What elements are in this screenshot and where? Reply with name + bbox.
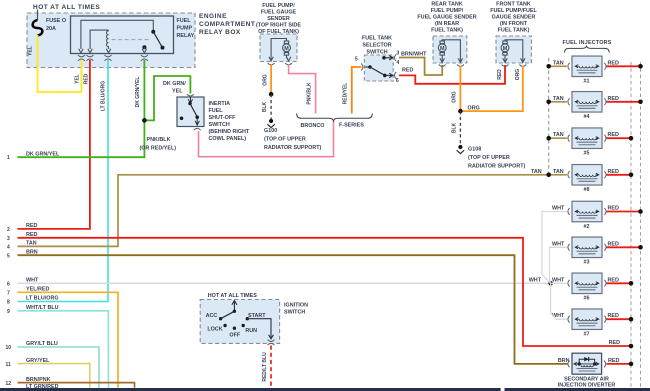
svg-text:RED: RED: [608, 241, 619, 247]
svg-text:FUEL TANK): FUEL TANK): [431, 27, 463, 33]
wire RED stub injector 1: [607, 65, 640, 67]
relay switch throw contact C (pin 4): [142, 45, 146, 49]
sender M3 internal top bar: [505, 40, 523, 43]
node FUEL PUMP/FUEL GAUGE SENDER label: [256, 3, 301, 35]
svg-text:RED: RED: [608, 206, 619, 212]
svg-text:LT BLU/ORG: LT BLU/ORG: [26, 296, 59, 302]
svg-text:WHT: WHT: [552, 241, 565, 247]
svg-text:BLK: BLK: [452, 122, 458, 133]
junction dot ORG/BLK: [269, 92, 274, 97]
wire LT GRN/RED bottom bar right: [505, 388, 650, 391]
selector switch arm: [370, 67, 385, 75]
svg-text:RED: RED: [608, 313, 619, 319]
diverter node dots: [578, 362, 597, 365]
sender M2 internal top bar: [442, 40, 460, 43]
svg-text:FUEL TANK: FUEL TANK: [362, 36, 392, 42]
svg-text:RADIATOR SUPPORT): RADIATOR SUPPORT): [468, 164, 526, 170]
wire RED from relay pin2 down to line 2: [18, 60, 90, 229]
connector at diverter right: [604, 361, 606, 368]
svg-text:YEL: YEL: [172, 89, 183, 95]
svg-text:FUEL GAUGE SENDER: FUEL GAUGE SENDER: [417, 14, 476, 20]
svg-text:GAUGE SENDER: GAUGE SENDER: [492, 14, 536, 20]
svg-text:RED: RED: [402, 68, 413, 74]
fuel injector #2: [568, 201, 606, 222]
sender M1 internal top bar: [271, 39, 286, 43]
fuel injector #7: [568, 309, 606, 330]
svg-text:FUEL TANK): FUEL TANK): [498, 27, 530, 33]
svg-text:PNK/BLK: PNK/BLK: [307, 82, 313, 105]
svg-text:#4: #4: [584, 114, 590, 120]
brace fuel injectors: [565, 45, 610, 52]
sender M3 left leg arrow: [503, 55, 507, 62]
svg-text:SWITCH: SWITCH: [284, 309, 305, 315]
connector below sender M3 right: [519, 65, 526, 67]
wire PNK/BLK from inertia switch to brace: [199, 122, 334, 157]
node PNK/BLK (OR RED/YEL) label: [140, 137, 177, 152]
svg-text:(IN REAR: (IN REAR: [435, 21, 459, 27]
svg-text:12: 12: [6, 381, 12, 387]
motor M of sender M1: [283, 41, 291, 58]
connector at inertia switch bottom: [194, 128, 201, 130]
ignition rotor pivot dot: [233, 310, 236, 313]
svg-text:TAN: TAN: [553, 132, 564, 138]
svg-text:(IN FRONT: (IN FRONT: [500, 21, 528, 27]
svg-text:4: 4: [397, 60, 400, 66]
svg-text:TAN: TAN: [531, 169, 542, 175]
junction dot tan 8: [546, 173, 551, 178]
wire RED line 3 long run: [18, 238, 630, 346]
contact LOCK: [223, 324, 226, 327]
sender M1 left leg with arrow: [269, 42, 273, 61]
svg-text:LOCK: LOCK: [207, 326, 222, 332]
contact START: [246, 317, 249, 320]
svg-text:RED: RED: [26, 232, 37, 238]
svg-text:3: 3: [7, 236, 10, 242]
svg-text:WHT: WHT: [552, 206, 565, 212]
svg-text:TAN: TAN: [553, 169, 564, 175]
secondary air injection diverter D1: [572, 353, 602, 374]
wire WHT bus to injector 2: [542, 212, 567, 284]
diverter coil bumps: [581, 365, 593, 367]
coil of relay U1: [107, 30, 109, 49]
junction dot red 2: [638, 209, 643, 214]
wire DK GRN/YEL branch to inertia switch: [144, 76, 190, 120]
wire ORG front sender down and left to junction: [460, 66, 522, 111]
wire PNK/BLK from sender M1 right leg to brace: [289, 65, 316, 114]
node G108 label: [468, 147, 526, 170]
ground G108: [457, 145, 465, 154]
svg-text:WHT: WHT: [26, 278, 39, 284]
wire RED stub injector 4: [607, 101, 640, 103]
motor M of sender M3: [501, 41, 509, 55]
junction dot line3 on inner bus: [629, 344, 634, 349]
wire TAN stub injector 5: [549, 137, 567, 139]
svg-text:COWL PANEL): COWL PANEL): [209, 136, 247, 142]
fuel injector #8: [568, 165, 606, 186]
wire RED stub injector 2: [607, 211, 640, 213]
junction dot red 3: [638, 245, 643, 250]
svg-text:11: 11: [6, 362, 12, 368]
wire LT BLU/ORG from relay pin3 down to line 8: [18, 60, 109, 302]
svg-text:RUN: RUN: [245, 328, 257, 334]
wire RED/YEL from selector pin 5 to brace: [352, 67, 362, 114]
svg-text:YEL: YEL: [28, 46, 34, 56]
node REAR TANK FUEL PUMP label: [417, 1, 476, 33]
svg-text:FUEL PUMP/: FUEL PUMP/: [431, 8, 464, 14]
svg-text:M: M: [440, 46, 445, 52]
node IGNITION SWITCH label: [284, 302, 308, 315]
svg-text:RED: RED: [609, 340, 620, 346]
sender M2 right leg arrow: [458, 43, 462, 63]
svg-text:FUSE O: FUSE O: [46, 18, 66, 24]
junction dot diverter red: [629, 362, 634, 367]
junction dot DK GRN/YEL: [142, 118, 147, 123]
wire WHT bus to injector 3: [550, 247, 567, 283]
relay switch arm: [153, 32, 162, 47]
svg-text:G108: G108: [468, 147, 481, 153]
node SECONDARY AIR INJECTION DIVERTER label: [558, 377, 616, 389]
diverter diode loop: [579, 359, 595, 364]
svg-text:SENDER: SENDER: [267, 16, 290, 22]
wire feed above fuse F1: [37, 10, 39, 21]
front tank fuel pump/fuel gauge sender M3: [496, 36, 531, 63]
connector below sender M1 left: [268, 63, 275, 65]
svg-text:3: 3: [397, 51, 400, 57]
sender M3 right leg arrow: [521, 43, 525, 63]
svg-text:ACC: ACC: [206, 313, 218, 319]
wire RED stub injector 5: [607, 137, 630, 139]
svg-text:2: 2: [7, 227, 10, 233]
svg-text:#2: #2: [584, 224, 590, 230]
wire RED stub injector 6: [607, 282, 630, 284]
wire TAN line 4 long run: [18, 175, 548, 247]
svg-text:REAR TANK: REAR TANK: [431, 1, 462, 7]
svg-text:INERTIA: INERTIA: [209, 101, 231, 107]
bus RED inner dashed vertical: [630, 62, 632, 387]
svg-text:ORG: ORG: [468, 106, 480, 112]
svg-text:FUEL PUMP/: FUEL PUMP/: [262, 3, 295, 9]
svg-text:FRONT TANK: FRONT TANK: [496, 1, 531, 7]
rear tank fuel pump/fuel gauge sender M2: [433, 36, 467, 63]
relay switch throw contact B: [161, 46, 165, 50]
svg-text:OFF: OFF: [229, 333, 240, 339]
fuel pump/fuel gauge sender M1 (bronco): [260, 34, 297, 62]
svg-text:YEL: YEL: [75, 74, 81, 84]
svg-text:5: 5: [355, 57, 358, 63]
wire WHT bus to injector 7: [551, 283, 567, 319]
svg-text:10: 10: [6, 345, 12, 351]
svg-text:PNK/BLK: PNK/BLK: [147, 137, 171, 143]
svg-text:#8: #8: [584, 187, 590, 193]
inertia switch spare contact: [180, 117, 184, 121]
fuel injector #6: [568, 273, 606, 294]
junction dot red 7: [629, 317, 634, 322]
inertia fuel shut-off switch S1: [177, 97, 204, 127]
ignition switch feed arrow: [232, 301, 237, 312]
svg-text:ENGINE: ENGINE: [199, 13, 227, 20]
sender M2 left leg arrow: [440, 55, 444, 62]
diode of diverter: [584, 357, 588, 362]
inertia switch arm: [190, 104, 197, 117]
fuel injector #1: [568, 56, 606, 77]
svg-text:RED: RED: [497, 69, 503, 80]
svg-text:RED: RED: [608, 96, 619, 102]
inertia switch input arrow: [188, 97, 192, 103]
ignition switch S3 (dashed box): [200, 300, 279, 344]
svg-text:4: 4: [7, 245, 10, 251]
wire RED stub injector 7: [607, 318, 630, 320]
svg-text:SHUT-OFF: SHUT-OFF: [209, 115, 237, 121]
junction dot tan 4: [546, 100, 551, 105]
wire WHT/LT BLU line 9: [18, 311, 109, 388]
connector at selector pin 4: [395, 54, 397, 61]
fuse label: [46, 18, 66, 32]
selector switch throw to pin 3/4: [382, 56, 393, 60]
wire ORG sender M1 to ground junction: [270, 65, 272, 95]
brace BRONCO/F-SERIES: [297, 114, 373, 122]
svg-text:#5: #5: [584, 151, 590, 157]
svg-text:LT BLU/ORG: LT BLU/ORG: [101, 81, 107, 111]
selector switch throw to pin 6: [383, 73, 393, 77]
svg-text:IGNITION: IGNITION: [284, 302, 308, 308]
wire relay internal pin1 to switch common: [81, 20, 153, 49]
svg-text:SWITCH: SWITCH: [209, 122, 230, 128]
fuel injector #4: [568, 92, 606, 113]
svg-text:DK GRN/YEL: DK GRN/YEL: [26, 151, 60, 157]
node G100 label: [264, 128, 322, 151]
wire WHT bus to injector 6: [551, 282, 567, 284]
junction dot ORG: [458, 109, 463, 114]
wire RED/LT BLU dashed: [270, 346, 272, 388]
junction dot tan 1: [546, 64, 551, 69]
connector below sender M1 right: [285, 63, 292, 65]
svg-text:(TOP OF UPPER: (TOP OF UPPER: [264, 137, 306, 143]
svg-text:RED: RED: [608, 60, 619, 66]
connector below sender M2 right: [457, 65, 464, 67]
wire RED stub injector 3: [607, 246, 640, 248]
wire RED selector pin6 to front sender: [399, 65, 505, 84]
svg-text:8: 8: [7, 300, 10, 306]
relay actuator dashed link: [112, 39, 150, 41]
engine compartment relay box (dashed enclosure): [27, 13, 195, 68]
connector symbols below relay pins: [78, 55, 148, 61]
diverter internal mid line with arrows: [574, 362, 599, 365]
svg-text:RED: RED: [84, 73, 90, 84]
wire YEL from fuse to relay pin 1: [38, 35, 82, 92]
svg-text:TAN: TAN: [26, 241, 37, 247]
svg-text:RELAY: RELAY: [177, 33, 195, 39]
wire WHT line 6 to injector bus: [18, 282, 551, 284]
wire relay internal pin2 to coil top: [90, 30, 108, 49]
svg-text:WHT: WHT: [552, 277, 565, 283]
svg-text:(OR RED/YEL): (OR RED/YEL): [140, 146, 177, 152]
svg-text:(TOP OF UPPER: (TOP OF UPPER: [468, 155, 510, 161]
svg-text:BRONCO: BRONCO: [301, 123, 325, 129]
bus TAN dashed vertical: [548, 58, 550, 175]
svg-text:RELAY BOX: RELAY BOX: [199, 29, 241, 36]
svg-text:7: 7: [7, 291, 10, 297]
junction dot red 4: [638, 100, 643, 105]
svg-text:#7: #7: [584, 332, 590, 338]
node INERTIA FUEL SHUT-OFF SWITCH label: [209, 101, 250, 142]
svg-text:RADIATOR SUPPORT): RADIATOR SUPPORT): [264, 145, 322, 151]
svg-text:1: 1: [7, 155, 10, 161]
fuel pump relay U1: [71, 16, 174, 54]
connector at selector pin 6: [395, 72, 397, 79]
sender M1 right leg arrow: [286, 57, 290, 61]
junction dot tan 5: [546, 136, 551, 141]
svg-text:HOT AT ALL TIMES: HOT AT ALL TIMES: [208, 293, 258, 299]
svg-text:PUMP: PUMP: [177, 26, 193, 32]
svg-text:HOT AT ALL TIMES: HOT AT ALL TIMES: [33, 4, 100, 11]
svg-text:#6: #6: [584, 296, 590, 302]
connector at selector pin 5: [361, 64, 363, 71]
svg-text:F-SERIES: F-SERIES: [339, 123, 364, 129]
node FUEL PUMP RELAY label: [177, 18, 195, 39]
inertia switch contact bottom: [195, 115, 199, 119]
svg-text:FUEL GAUGE: FUEL GAUGE: [261, 10, 297, 16]
svg-text:ORG: ORG: [263, 74, 269, 86]
connector at inertia switch top: [187, 94, 194, 96]
svg-text:RED/YEL: RED/YEL: [343, 83, 349, 105]
svg-text:ORG: ORG: [452, 91, 458, 103]
relay switch fixed contact A: [151, 30, 155, 34]
svg-text:TAN: TAN: [553, 96, 564, 102]
pin arrows of relay U1: [79, 49, 147, 53]
wire BLK dashed to G108: [459, 111, 461, 145]
node FRONT TANK FUEL PUMP label: [490, 1, 537, 33]
junction dot red 6: [629, 281, 634, 286]
svg-text:WHT: WHT: [529, 277, 542, 283]
svg-text:INJECTION DIVERTER: INJECTION DIVERTER: [558, 383, 616, 389]
svg-text:SELECTOR: SELECTOR: [362, 43, 391, 49]
svg-text:#3: #3: [584, 260, 590, 266]
wire relay pin4 stub: [143, 47, 145, 49]
svg-text:5: 5: [7, 253, 10, 259]
svg-text:FUEL: FUEL: [209, 108, 224, 114]
connector below sender M3 left: [502, 65, 509, 67]
junction dot red 5: [629, 136, 634, 141]
svg-text:TAN: TAN: [553, 60, 564, 66]
svg-text:G100: G100: [264, 128, 277, 134]
wire BRN/PNK line 12: [18, 383, 135, 388]
node ENGINE COMPARTMENT RELAY BOX label: [199, 13, 255, 36]
contact OFF: [233, 327, 236, 330]
svg-text:6: 6: [7, 282, 10, 288]
inertia switch contact top: [188, 102, 192, 106]
wire YEL/RED line 7: [18, 292, 119, 387]
inertia switch output arrow: [195, 118, 199, 125]
fuel injector #3: [568, 237, 606, 257]
selector switch common contact: [365, 66, 369, 68]
svg-text:9: 9: [7, 309, 10, 315]
junction dot WHT: [548, 281, 553, 286]
junction dot red 8: [629, 173, 634, 178]
connector at ignition switch bottom: [268, 340, 275, 346]
contact ACC: [219, 317, 222, 320]
svg-text:(TOP RIGHT SIDE: (TOP RIGHT SIDE: [256, 23, 301, 29]
bus RED outer dashed vertical: [640, 62, 642, 387]
node DK GRN/ YEL label at inertia: [163, 81, 186, 95]
node FUEL TANK SELECTOR SWITCH label: [362, 36, 392, 56]
motor M of sender M2: [438, 41, 446, 55]
svg-text:BRN: BRN: [26, 249, 38, 255]
svg-text:DK GRN/: DK GRN/: [163, 81, 186, 87]
wire BLK dashed to G100: [270, 94, 272, 119]
svg-text:FUEL INJECTORS: FUEL INJECTORS: [562, 40, 611, 46]
wire RED stub injector 8: [607, 174, 630, 176]
svg-text:M: M: [503, 46, 508, 52]
diverter base lines: [577, 369, 598, 372]
svg-text:#1: #1: [584, 79, 590, 85]
svg-text:6: 6: [396, 78, 399, 84]
svg-text:M: M: [284, 46, 289, 52]
wire TAN stub injector 8: [549, 174, 567, 176]
connector at diverter left: [568, 361, 570, 368]
svg-text:RED: RED: [26, 223, 37, 229]
contact RUN: [242, 324, 245, 327]
svg-text:RED: RED: [608, 358, 619, 364]
wire GRY/LT BLU line 10: [18, 347, 100, 388]
connector below sender M2 left: [439, 65, 446, 67]
wire ORG rear sender to junction: [459, 66, 461, 111]
svg-text:BLK: BLK: [262, 101, 268, 112]
svg-text:RED: RED: [608, 132, 619, 138]
wire TAN stub injector 4: [549, 101, 567, 103]
wire RED diverter to inner bus: [607, 363, 630, 365]
svg-text:RED: RED: [608, 277, 619, 283]
svg-text:FUEL: FUEL: [177, 18, 192, 24]
wire TAN stub injector 1: [549, 65, 567, 67]
svg-text:COMPARTMENT: COMPARTMENT: [199, 21, 255, 28]
svg-text:DK GRN/YEL: DK GRN/YEL: [135, 77, 141, 108]
fuel tank selector switch S2: [364, 55, 393, 81]
junction dot red 1: [638, 64, 643, 69]
wire GRY/YEL line 11: [18, 364, 90, 388]
svg-text:(BEHIND RIGHT: (BEHIND RIGHT: [209, 129, 250, 135]
ground G100: [267, 119, 275, 128]
fuse F1 20A: [33, 20, 43, 36]
wire DK GRN/YEL from relay pin4 down to junction and line 1: [18, 60, 145, 157]
wire LT GRN/RED bottom bar left: [0, 388, 501, 391]
wire BRN line 5 to diverter: [18, 255, 568, 364]
wire START output with arrow: [247, 319, 273, 339]
svg-text:RED/LT BLU: RED/LT BLU: [262, 352, 268, 382]
fuel injector #5: [568, 128, 606, 149]
svg-text:RED: RED: [608, 169, 619, 175]
svg-text:ORG: ORG: [515, 69, 521, 81]
ignition switch rotor arm: [221, 311, 235, 318]
wire BRN/WHT selector pin4 to rear sender: [399, 58, 442, 76]
svg-text:20A: 20A: [46, 26, 56, 32]
svg-text:FUEL PUMP/FUEL: FUEL PUMP/FUEL: [490, 8, 537, 14]
